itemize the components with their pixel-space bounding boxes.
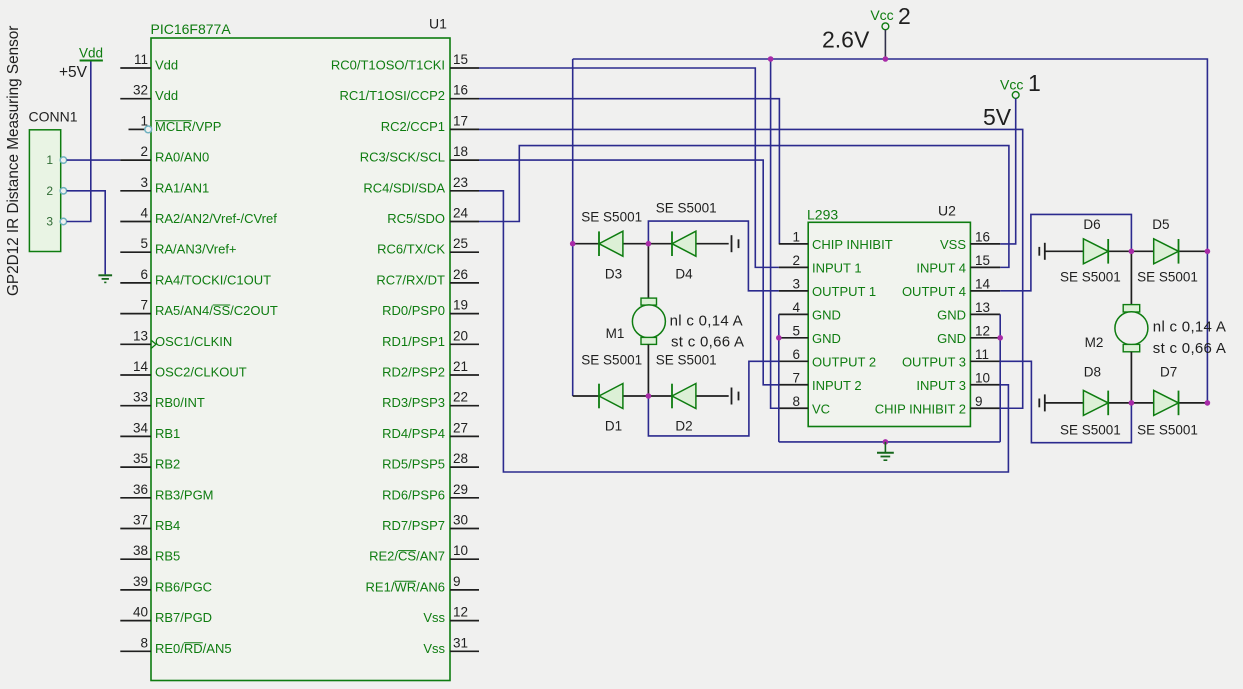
pin 22 U1 right	[450, 405, 479, 407]
wire OUTPUT1 to M1 top	[648, 221, 778, 291]
diode D5 SES5001	[1154, 239, 1179, 264]
svg-text:Vss: Vss	[423, 610, 445, 625]
svg-text:17: 17	[453, 113, 468, 128]
svg-text:Vdd: Vdd	[155, 88, 178, 103]
wire M1 left column	[572, 59, 574, 396]
svg-text:+5V: +5V	[59, 64, 88, 81]
junction rail-VC	[768, 56, 774, 62]
svg-text:2: 2	[898, 3, 911, 29]
pin 19 U1 right	[450, 313, 479, 315]
svg-text:35: 35	[133, 451, 148, 466]
svg-text:VC: VC	[812, 401, 830, 416]
pin 3 U1 left	[120, 190, 151, 192]
svg-text:RB0/INT: RB0/INT	[155, 395, 205, 410]
svg-text:GP2D12 IR Distance Measuring S: GP2D12 IR Distance Measuring Sensor	[5, 26, 22, 296]
svg-text:39: 39	[133, 574, 148, 589]
pin 9 U1 right	[450, 589, 479, 591]
svg-text:OUTPUT 3: OUTPUT 3	[902, 354, 966, 369]
svg-text:34: 34	[133, 420, 149, 435]
svg-text:27: 27	[453, 420, 468, 435]
wire RC5 to L293 INPUT 4	[479, 146, 1009, 268]
svg-text:1: 1	[792, 229, 800, 244]
junction D7 right	[1205, 400, 1211, 406]
pin 1 U1 left	[129, 128, 145, 130]
pin 16 U2 right VSS	[970, 243, 1000, 245]
pin 5 U1 left	[120, 251, 151, 253]
wire OUTPUT3 to M2 bottom	[1000, 361, 1131, 442]
svg-text:2: 2	[792, 253, 800, 268]
svg-text:16: 16	[975, 229, 990, 244]
MCLR bubble	[145, 126, 152, 133]
svg-text:SE S5001: SE S5001	[1060, 269, 1121, 284]
svg-text:11: 11	[134, 52, 148, 67]
svg-text:D5: D5	[1152, 217, 1169, 232]
terminal tick left of D8	[1038, 399, 1040, 408]
svg-text:RA4/TOCKI/C1OUT: RA4/TOCKI/C1OUT	[155, 272, 271, 287]
svg-text:31: 31	[453, 635, 468, 650]
pin 16 U1 right	[450, 98, 479, 100]
svg-text:CHIP INHIBIT 2: CHIP INHIBIT 2	[875, 401, 966, 416]
svg-text:U2: U2	[938, 203, 956, 219]
svg-text:D4: D4	[675, 267, 693, 282]
wire OUTPUT4 to M2 top	[1000, 214, 1131, 290]
wire RC0 to L293 INPUT 1	[479, 68, 779, 267]
svg-text:14: 14	[133, 359, 149, 374]
svg-text:18: 18	[453, 144, 468, 159]
svg-text:5V: 5V	[983, 104, 1012, 130]
svg-text:3: 3	[792, 276, 800, 291]
svg-text:32: 32	[133, 83, 148, 98]
svg-text:INPUT 3: INPUT 3	[916, 378, 966, 393]
pin 37 U1 left	[120, 528, 151, 530]
diode D3 SES5001	[599, 231, 623, 256]
junction rail-Vcc2	[883, 56, 889, 62]
svg-text:SE S5001: SE S5001	[1137, 422, 1198, 437]
pin 5 U2 left GND	[779, 337, 808, 339]
wire CONN1 pin 2 to ground	[67, 191, 106, 275]
svg-text:6: 6	[792, 347, 800, 362]
svg-text:SE S5001: SE S5001	[581, 352, 642, 367]
svg-text:1: 1	[46, 153, 53, 167]
pin 10 U1 right	[450, 558, 479, 560]
svg-text:GND: GND	[812, 307, 841, 322]
svg-text:RC7/RX/DT: RC7/RX/DT	[376, 272, 445, 287]
svg-text:RD3/PSP3: RD3/PSP3	[382, 395, 445, 410]
connector CONN1	[29, 130, 60, 252]
svg-text:D1: D1	[605, 419, 622, 434]
pin 11 U2 right OUTPUT 3	[970, 360, 1000, 362]
svg-text:2.6V: 2.6V	[822, 27, 870, 53]
svg-text:D3: D3	[605, 267, 622, 282]
svg-text:SE S5001: SE S5001	[581, 209, 642, 224]
svg-text:RC5/SDO: RC5/SDO	[387, 211, 445, 226]
pin 9 U2 right CHIP INHIBIT 2	[970, 407, 1000, 409]
svg-text:OUTPUT 2: OUTPUT 2	[812, 354, 876, 369]
svg-text:RB4: RB4	[155, 518, 180, 533]
svg-text:5: 5	[140, 236, 148, 251]
svg-text:23: 23	[453, 175, 468, 190]
svg-text:RB6/PGC: RB6/PGC	[155, 579, 212, 594]
svg-text:VSS: VSS	[940, 237, 966, 252]
svg-text:Vdd: Vdd	[79, 46, 103, 61]
svg-text:8: 8	[792, 394, 800, 409]
pin 27 U1 right	[450, 435, 479, 437]
svg-text:nl c 0,14 A: nl c 0,14 A	[1153, 319, 1226, 336]
diode D6 SES5001	[1083, 239, 1108, 264]
svg-text:8: 8	[140, 635, 148, 650]
svg-text:12: 12	[975, 323, 990, 338]
pin 25 U1 right	[450, 251, 479, 253]
svg-text:2: 2	[46, 184, 53, 198]
svg-text:30: 30	[453, 513, 468, 528]
svg-text:RD0/PSP0: RD0/PSP0	[382, 303, 445, 318]
svg-text:GND: GND	[937, 331, 966, 346]
diode D1 SES5001	[599, 384, 623, 409]
svg-text:RB2: RB2	[155, 457, 180, 472]
svg-text:9: 9	[975, 394, 983, 409]
svg-text:25: 25	[453, 236, 468, 251]
wire D3 row	[573, 243, 599, 245]
svg-text:SE S5001: SE S5001	[1060, 422, 1121, 437]
svg-text:U1: U1	[429, 16, 447, 32]
OSC1 clock chevron	[151, 340, 156, 348]
svg-text:RA1/AN1: RA1/AN1	[155, 180, 209, 195]
power symbol Vcc 2	[882, 23, 889, 30]
svg-text:28: 28	[453, 451, 468, 466]
pin 31 U1 right	[450, 650, 479, 652]
power symbol Vcc 1	[1012, 92, 1019, 99]
svg-text:RA0/AN0: RA0/AN0	[155, 150, 209, 165]
pin 34 U1 left	[120, 435, 151, 437]
svg-text:RC6/TX/CK: RC6/TX/CK	[377, 242, 445, 257]
svg-text:36: 36	[133, 482, 148, 497]
diode D2 SES5001	[672, 384, 696, 409]
svg-text:12: 12	[453, 605, 468, 620]
svg-text:SE S5001: SE S5001	[1137, 269, 1198, 284]
svg-text:7: 7	[792, 370, 800, 385]
svg-text:OSC2/CLKOUT: OSC2/CLKOUT	[155, 365, 247, 380]
pin 36 U1 left	[120, 497, 151, 499]
wire rail to VC	[771, 59, 779, 408]
motor driver U2 L293 body	[808, 222, 970, 426]
terminal tick right of D4	[731, 235, 733, 252]
svg-text:4: 4	[792, 300, 800, 315]
pin 39 U1 left	[120, 589, 151, 591]
pin 21 U1 right	[450, 374, 479, 376]
svg-text:5: 5	[792, 323, 800, 338]
pin 8 U1 left	[120, 650, 151, 652]
ground below L293	[884, 442, 886, 452]
junction GND left	[776, 335, 782, 341]
svg-text:RC1/T1OSI/CCP2: RC1/T1OSI/CCP2	[340, 88, 445, 103]
pin 38 U1 left	[120, 558, 151, 560]
svg-text:29: 29	[453, 482, 468, 497]
junction D5 right	[1205, 249, 1211, 255]
wire GND left bridge	[778, 314, 780, 442]
pin 13 U2 right GND	[970, 313, 1000, 315]
svg-text:GND: GND	[812, 331, 841, 346]
pin 4 U1 left	[120, 221, 151, 223]
pin 26 U1 right	[450, 282, 479, 284]
svg-text:GND: GND	[937, 307, 966, 322]
svg-text:37: 37	[133, 513, 148, 528]
svg-text:3: 3	[46, 215, 53, 229]
svg-text:RD5/PSP5: RD5/PSP5	[382, 457, 445, 472]
svg-text:11: 11	[975, 347, 989, 362]
svg-text:14: 14	[975, 276, 991, 291]
svg-text:RA2/AN2/Vref-/CVref: RA2/AN2/Vref-/CVref	[155, 211, 277, 226]
svg-text:CHIP INHIBIT: CHIP INHIBIT	[812, 237, 893, 252]
svg-text:RC4/SDI/SDA: RC4/SDI/SDA	[363, 180, 445, 195]
svg-text:10: 10	[453, 543, 468, 558]
svg-text:M2: M2	[1085, 335, 1104, 350]
svg-text:33: 33	[133, 390, 148, 405]
pin 4 U2 left GND	[779, 313, 808, 315]
svg-text:20: 20	[453, 328, 468, 343]
svg-text:st c 0,66 A: st c 0,66 A	[671, 334, 744, 351]
terminal tick left of D6	[1038, 247, 1040, 256]
svg-text:INPUT 2: INPUT 2	[812, 378, 862, 393]
svg-text:PIC16F877A: PIC16F877A	[151, 21, 232, 37]
pin 14 U1 left	[120, 374, 151, 376]
pin 29 U1 right	[450, 497, 479, 499]
wire D8 row	[1045, 402, 1084, 404]
pin 10 U2 right INPUT 3	[970, 384, 1000, 386]
svg-text:D8: D8	[1084, 365, 1101, 380]
svg-text:st c 0,66 A: st c 0,66 A	[1153, 340, 1226, 357]
pin 12 U1 right	[450, 620, 479, 622]
junction M2 top	[1129, 249, 1135, 255]
wire D6 row	[1045, 250, 1084, 252]
junction M1 bottom	[646, 393, 652, 399]
svg-text:13: 13	[975, 300, 990, 315]
svg-text:6: 6	[140, 267, 148, 282]
pin 30 U1 right	[450, 528, 479, 530]
svg-text:L293: L293	[807, 207, 838, 223]
svg-text:OSC1/CLKIN: OSC1/CLKIN	[155, 334, 232, 349]
svg-text:SE S5001: SE S5001	[656, 201, 717, 216]
pin 6 U1 left	[120, 282, 151, 284]
svg-text:RD4/PSP4: RD4/PSP4	[382, 426, 445, 441]
svg-text:Vss: Vss	[423, 641, 445, 656]
svg-text:15: 15	[453, 52, 468, 67]
svg-text:19: 19	[453, 298, 468, 313]
pin 7 U1 left	[120, 313, 151, 315]
pin 40 U1 left	[120, 620, 151, 622]
pin 6 U2 left OUTPUT 2	[779, 360, 808, 362]
svg-text:21: 21	[453, 359, 468, 374]
pin 14 U2 right OUTPUT 4	[970, 290, 1000, 292]
svg-text:RA/AN3/Vref+: RA/AN3/Vref+	[155, 242, 237, 257]
pin 2 U2 left INPUT 1	[779, 266, 808, 268]
junction GND right	[997, 335, 1003, 341]
svg-text:Vcc: Vcc	[870, 7, 893, 23]
svg-text:4: 4	[140, 206, 148, 221]
svg-text:M1: M1	[606, 326, 625, 341]
svg-text:9: 9	[453, 574, 461, 589]
pin 32 U1 left	[120, 98, 151, 100]
wire RC3 to L293 INPUT 2	[479, 160, 779, 385]
svg-text:RD7/PSP7: RD7/PSP7	[382, 518, 445, 533]
ground below CONN1	[98, 274, 112, 276]
wire RC4 to L293 INPUT 3	[479, 191, 1008, 472]
pin 18 U1 right	[450, 159, 479, 161]
wire CONN1 pin 1 to RA0/AN0	[67, 159, 121, 161]
junction GND rail	[883, 439, 889, 445]
svg-text:CONN1: CONN1	[29, 109, 78, 125]
svg-text:OUTPUT 1: OUTPUT 1	[812, 284, 876, 299]
wire GND bottom rail	[779, 441, 1000, 443]
junction M1 left	[570, 241, 576, 247]
pin 3 U2 left OUTPUT 1	[779, 290, 808, 292]
svg-text:D2: D2	[675, 419, 692, 434]
wire Vdd to CONN1 pin 3	[67, 62, 91, 222]
svg-text:40: 40	[133, 605, 148, 620]
svg-text:RB1: RB1	[155, 426, 180, 441]
wire GND right bridge	[999, 314, 1001, 442]
motor M2	[1130, 251, 1132, 304]
svg-text:INPUT 1: INPUT 1	[812, 260, 862, 275]
svg-text:RD2/PSP2: RD2/PSP2	[382, 365, 445, 380]
svg-text:3: 3	[140, 175, 148, 190]
pin 2 U1 left	[120, 159, 151, 161]
svg-text:OUTPUT 4: OUTPUT 4	[902, 284, 966, 299]
svg-text:22: 22	[453, 390, 468, 405]
svg-text:24: 24	[453, 206, 469, 221]
pin 11 U1 left	[120, 67, 151, 69]
pin 7 U2 left INPUT 2	[779, 384, 808, 386]
svg-text:Vcc: Vcc	[1000, 77, 1023, 93]
pin 28 U1 right	[450, 466, 479, 468]
svg-text:D6: D6	[1083, 217, 1100, 232]
svg-text:RD1/PSP1: RD1/PSP1	[382, 334, 445, 349]
junction M1 top	[646, 241, 652, 247]
svg-text:10: 10	[975, 370, 990, 385]
pin 12 U2 right GND	[970, 337, 1000, 339]
svg-text:1: 1	[1028, 70, 1041, 96]
svg-text:INPUT 4: INPUT 4	[916, 260, 966, 275]
svg-text:15: 15	[975, 253, 990, 268]
wire OUTPUT2 to M1 bottom	[648, 361, 778, 436]
pin 1 U2 left CHIP INHIBIT	[779, 243, 808, 245]
wire D1 row	[573, 395, 599, 397]
pin 17 U1 right	[450, 128, 479, 130]
svg-text:RC0/T1OSO/T1CKI: RC0/T1OSO/T1CKI	[331, 58, 445, 73]
pin 13 U1 left	[120, 343, 151, 345]
svg-text:RB7/PGD: RB7/PGD	[155, 610, 212, 625]
svg-text:16: 16	[453, 83, 468, 98]
wire RC1 to L293 CHIP INHIBIT	[479, 99, 779, 244]
diode D4 SES5001	[672, 231, 696, 256]
svg-text:D7: D7	[1160, 365, 1177, 380]
svg-text:2: 2	[140, 144, 148, 159]
microcontroller U1 PIC16F877A body	[151, 38, 450, 681]
svg-text:38: 38	[133, 543, 148, 558]
motor M1	[647, 244, 649, 298]
wire Vcc1 to VSS	[1000, 98, 1016, 244]
svg-text:nl c 0,14 A: nl c 0,14 A	[670, 313, 743, 330]
svg-text:RB3/PGM: RB3/PGM	[155, 487, 214, 502]
svg-text:SE S5001: SE S5001	[656, 352, 717, 367]
diode D7 SES5001	[1154, 390, 1179, 415]
svg-text:RD6/PSP6: RD6/PSP6	[382, 487, 445, 502]
svg-text:26: 26	[453, 267, 468, 282]
svg-text:13: 13	[133, 328, 148, 343]
pin 35 U1 left	[120, 466, 151, 468]
pin 24 U1 right	[450, 221, 479, 223]
pin 15 U2 right INPUT 4	[970, 266, 1000, 268]
pin 33 U1 left	[120, 405, 151, 407]
svg-text:RC2/CCP1: RC2/CCP1	[381, 119, 445, 134]
svg-text:7: 7	[140, 298, 148, 313]
diode D8 SES5001	[1083, 390, 1108, 415]
svg-text:RC3/SCK/SCL: RC3/SCK/SCL	[360, 150, 445, 165]
pin 8 U2 left VC	[779, 407, 808, 409]
wire RC2 to L293 CHIP INHIBIT 2	[479, 129, 1023, 408]
wire 2.6V rail	[573, 59, 1208, 403]
terminal tick right of D2	[731, 388, 733, 405]
pin 20 U1 right	[450, 343, 479, 345]
junction M2 bottom	[1129, 400, 1135, 406]
svg-text:Vdd: Vdd	[155, 58, 178, 73]
svg-text:RB5: RB5	[155, 549, 180, 564]
pin 15 U1 right	[450, 67, 479, 69]
pin 23 U1 right	[450, 190, 479, 192]
